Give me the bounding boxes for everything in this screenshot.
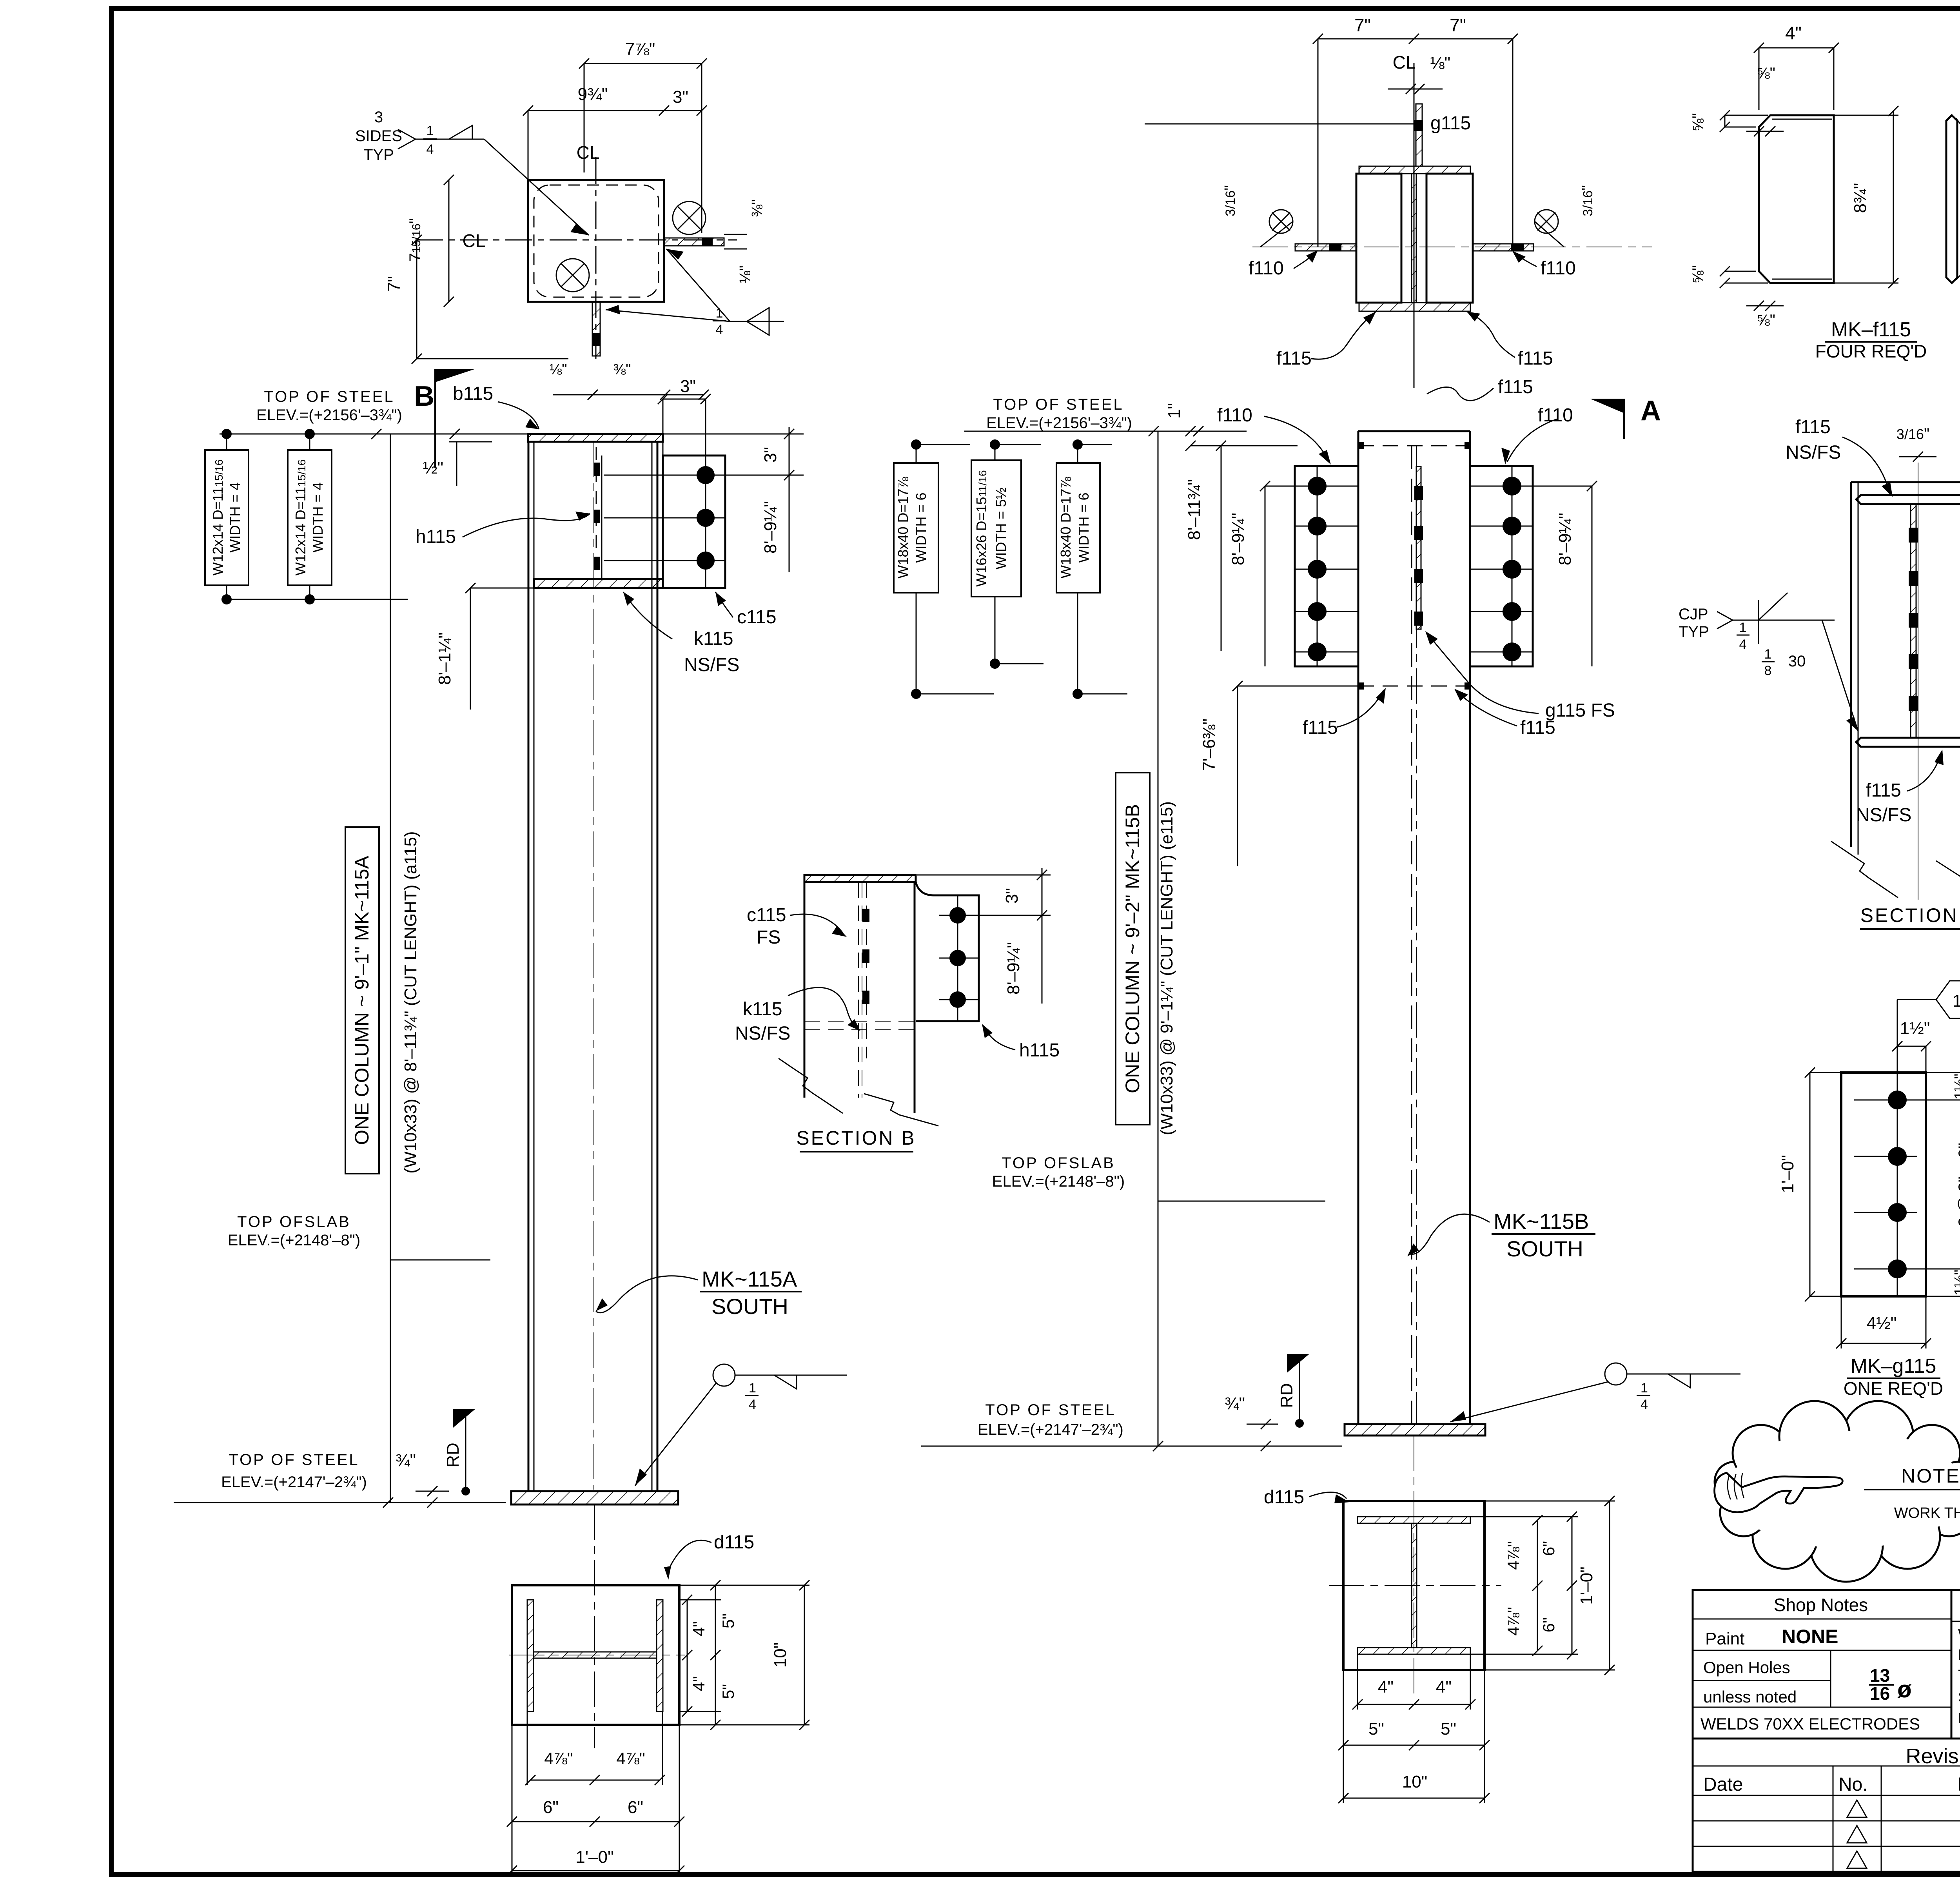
svg-text:FOUR REQ'D: FOUR REQ'D bbox=[1815, 341, 1927, 361]
svg-text:CL: CL bbox=[577, 142, 600, 163]
svg-text:SECTION B: SECTION B bbox=[796, 1127, 916, 1149]
svg-text:f110: f110 bbox=[1249, 258, 1284, 279]
svg-text:RD: RD bbox=[443, 1443, 463, 1468]
svg-text:TOP OFSLAB: TOP OFSLAB bbox=[237, 1213, 351, 1230]
svg-text:¾": ¾" bbox=[396, 1451, 416, 1470]
svg-text:f115: f115 bbox=[1795, 417, 1831, 437]
svg-text:ONE COLUMN ~ 9'–2" MK~115B: ONE COLUMN ~ 9'–2" MK~115B bbox=[1122, 804, 1143, 1093]
svg-text:8'–9¼": 8'–9¼" bbox=[1004, 942, 1023, 995]
weld symbol circles bbox=[556, 259, 589, 292]
svg-text:4": 4" bbox=[1378, 1677, 1394, 1697]
column flanges bbox=[528, 442, 530, 1491]
svg-text:4": 4" bbox=[1436, 1677, 1452, 1697]
svg-text:TOP OF STEEL: TOP OF STEEL bbox=[264, 388, 394, 405]
svg-text:ELEV.=(+2147'–2¾"): ELEV.=(+2147'–2¾") bbox=[221, 1474, 367, 1491]
svg-text:ø: ø bbox=[1897, 1676, 1912, 1702]
svg-text:8¾": 8¾" bbox=[1851, 183, 1870, 213]
svg-text:RD: RD bbox=[1277, 1383, 1296, 1408]
svg-text:unless noted: unless noted bbox=[1703, 1688, 1797, 1706]
svg-text:1": 1" bbox=[1165, 403, 1184, 419]
top of slab note (middle column) bbox=[992, 1154, 1325, 1201]
svg-text:7": 7" bbox=[1354, 15, 1371, 35]
svg-text:SIDES: SIDES bbox=[355, 127, 402, 145]
svg-text:h115: h115 bbox=[416, 526, 456, 547]
f110 side plates with bolts bbox=[1295, 466, 1358, 666]
svg-text:f115: f115 bbox=[1518, 348, 1553, 369]
svg-text:Paint: Paint bbox=[1705, 1629, 1744, 1648]
svg-text:WIDTH = 5½: WIDTH = 5½ bbox=[993, 487, 1009, 569]
svg-text:8'–9¼": 8'–9¼" bbox=[761, 501, 780, 554]
svg-text:⅝": ⅝" bbox=[1690, 265, 1707, 284]
dim 3/4 at base bbox=[396, 1451, 449, 1508]
svg-text:3/16": 3/16" bbox=[1579, 185, 1596, 216]
svg-text:3": 3" bbox=[680, 377, 696, 396]
svg-text:4⅞": 4⅞" bbox=[544, 1749, 573, 1768]
svg-text:1: 1 bbox=[716, 306, 723, 321]
svg-text:TOP OF STEEL: TOP OF STEEL bbox=[993, 396, 1123, 413]
svg-text:MK~115A: MK~115A bbox=[702, 1267, 797, 1291]
svg-text:Bars & Plts.: Bars & Plts. bbox=[1958, 1647, 1960, 1663]
svg-text:Open Holes: Open Holes bbox=[1703, 1658, 1790, 1677]
svg-text:c115: c115 bbox=[737, 607, 777, 628]
svg-text:ELEV.=(+2147'–2¾"): ELEV.=(+2147'–2¾") bbox=[978, 1421, 1123, 1438]
svg-text:B: B bbox=[414, 381, 434, 412]
svg-text:4: 4 bbox=[716, 322, 723, 337]
svg-text:6": 6" bbox=[543, 1798, 559, 1817]
svg-text:1: 1 bbox=[1739, 620, 1747, 635]
svg-text:FS: FS bbox=[757, 927, 780, 948]
centerline below middle base bbox=[1414, 1436, 1414, 1697]
svg-text:TCC Bolts: TCC Bolts bbox=[1958, 1667, 1960, 1684]
svg-text:5": 5" bbox=[719, 1684, 737, 1699]
svg-text:NS/FS: NS/FS bbox=[735, 1023, 790, 1044]
top of slab note (left column) bbox=[228, 1213, 490, 1260]
svg-text:4⅞": 4⅞" bbox=[616, 1749, 645, 1768]
svg-text:NONE: NONE bbox=[1782, 1626, 1838, 1648]
web plate hatched with bolts bbox=[1911, 504, 1916, 738]
svg-text:WIDTH = 4: WIDTH = 4 bbox=[310, 482, 326, 552]
web and c115 dashed bbox=[858, 882, 859, 1098]
base plate (middle column elevation) bbox=[1345, 1424, 1485, 1436]
svg-text:8'–9¼": 8'–9¼" bbox=[1229, 513, 1248, 565]
web dashed centerlines bbox=[1411, 446, 1412, 1424]
pointing hand bbox=[1715, 1473, 1843, 1512]
svg-text:SECTION A: SECTION A bbox=[1860, 904, 1960, 926]
svg-text:g115: g115 bbox=[1430, 113, 1471, 134]
svg-text:W18x40 D=17⅞: W18x40 D=17⅞ bbox=[895, 476, 911, 578]
svg-text:13: 13 bbox=[1870, 1665, 1890, 1686]
svg-text:Structure Tubes: Structure Tubes bbox=[1958, 1689, 1960, 1706]
shop notes / material table bbox=[1693, 1590, 1960, 1872]
svg-text:3": 3" bbox=[761, 447, 780, 463]
svg-text:8: 8 bbox=[1764, 663, 1772, 678]
svg-text:1½": 1½" bbox=[1900, 1019, 1930, 1038]
svg-text:7": 7" bbox=[385, 276, 404, 292]
web splice hatched strip with bolts bbox=[1416, 466, 1421, 629]
svg-text:⅛": ⅛" bbox=[737, 265, 753, 283]
svg-text:CL: CL bbox=[463, 230, 486, 251]
svg-text:9¾": 9¾" bbox=[578, 85, 608, 104]
column centerline bbox=[593, 442, 594, 1490]
middle column elevation MK~115B bbox=[964, 396, 1615, 1424]
svg-text:NS/FS: NS/FS bbox=[1856, 805, 1911, 826]
base plate plan with W10 section (left) bbox=[507, 1580, 809, 1876]
base plate (left column elevation) bbox=[511, 1491, 678, 1505]
svg-text:ELEV.=(+2148'–8"): ELEV.=(+2148'–8") bbox=[228, 1232, 360, 1249]
svg-text:CL: CL bbox=[1393, 52, 1416, 73]
svg-text:TYP: TYP bbox=[1679, 623, 1709, 641]
svg-text:Pipe: Pipe bbox=[1958, 1710, 1960, 1727]
splice dashed lines bbox=[1358, 445, 1470, 446]
svg-text:No.: No. bbox=[1838, 1774, 1868, 1795]
svg-text:⅛": ⅛" bbox=[1430, 53, 1450, 73]
svg-text:NOTE TO FABRICATOR:: NOTE TO FABRICATOR: bbox=[1901, 1465, 1960, 1487]
svg-text:Date: Date bbox=[1703, 1774, 1743, 1795]
MK~115A SOUTH label bbox=[596, 1267, 802, 1319]
svg-text:TOP OFSLAB: TOP OFSLAB bbox=[1002, 1154, 1115, 1172]
svg-text:⅜": ⅜" bbox=[613, 361, 631, 378]
svg-text:1½": 1½" bbox=[1952, 1074, 1960, 1100]
top of steel note at base (left column) bbox=[174, 1451, 506, 1508]
svg-text:SOUTH: SOUTH bbox=[1506, 1236, 1583, 1261]
svg-text:6": 6" bbox=[1539, 1617, 1558, 1632]
svg-text:Revision: Revision bbox=[1906, 1744, 1960, 1768]
svg-text:g115 FS: g115 FS bbox=[1545, 700, 1615, 721]
k115 plate bbox=[534, 579, 663, 588]
svg-text:¾": ¾" bbox=[1225, 1394, 1245, 1413]
top of steel note (left column) bbox=[256, 388, 402, 424]
svg-text:TYP: TYP bbox=[363, 146, 394, 163]
svg-text:10": 10" bbox=[1402, 1772, 1428, 1791]
svg-text:W18x40 D=17⅞: W18x40 D=17⅞ bbox=[1058, 476, 1074, 578]
svg-text:8'–1¼": 8'–1¼" bbox=[435, 632, 454, 685]
svg-text:5": 5" bbox=[1441, 1719, 1456, 1739]
top of steel line bbox=[220, 434, 804, 435]
svg-text:1: 1 bbox=[1764, 647, 1772, 662]
bottom flange plate f115 bbox=[1856, 738, 1960, 747]
svg-text:k115: k115 bbox=[743, 999, 782, 1020]
weld circles bbox=[1269, 210, 1293, 233]
weld note at middle base plate bbox=[1450, 1363, 1740, 1422]
svg-text:4": 4" bbox=[690, 1676, 708, 1691]
MK~115B SOUTH label bbox=[1407, 1209, 1595, 1261]
svg-text:3: 3 bbox=[374, 109, 383, 126]
svg-text:1 x: 1 x bbox=[1953, 991, 1960, 1011]
weld note at left base plate bbox=[635, 1364, 847, 1486]
svg-text:MK~115B: MK~115B bbox=[1494, 1209, 1589, 1234]
svg-text:NS/FS: NS/FS bbox=[684, 655, 739, 675]
svg-text:4: 4 bbox=[426, 142, 434, 157]
svg-text:⅝": ⅝" bbox=[1690, 113, 1707, 132]
svg-text:4": 4" bbox=[1785, 23, 1802, 43]
svg-text:MK–g115: MK–g115 bbox=[1851, 1355, 1936, 1377]
dim 3 top (flange to bolts) bbox=[663, 399, 706, 400]
svg-text:Wide Flgs.: Wide Flgs. bbox=[1958, 1626, 1960, 1643]
svg-text:WIDTH = 6: WIDTH = 6 bbox=[1076, 492, 1092, 563]
svg-text:f110: f110 bbox=[1217, 405, 1252, 426]
svg-text:f110: f110 bbox=[1538, 405, 1573, 426]
base plate plan with W10 section (middle, rotated) bbox=[1329, 1496, 1615, 1803]
svg-text:1'–0": 1'–0" bbox=[1778, 1155, 1797, 1193]
svg-text:⅝": ⅝" bbox=[1757, 65, 1775, 82]
svg-text:1½": 1½" bbox=[1952, 1270, 1960, 1296]
left cap plate plan detail bbox=[355, 40, 784, 400]
svg-text:f115: f115 bbox=[1866, 780, 1901, 801]
svg-text:6": 6" bbox=[628, 1798, 643, 1817]
break lines bottom bbox=[1831, 841, 1898, 898]
svg-text:4⅞": 4⅞" bbox=[1504, 1607, 1523, 1635]
svg-text:7'–6⅜": 7'–6⅜" bbox=[1200, 719, 1219, 771]
svg-text:1'–0": 1'–0" bbox=[1577, 1566, 1596, 1604]
g115 tab plan bbox=[1416, 104, 1422, 166]
svg-text:4: 4 bbox=[1739, 637, 1747, 652]
svg-text:A: A bbox=[1641, 395, 1661, 426]
svg-text:½": ½" bbox=[423, 458, 443, 477]
svg-text:⅛": ⅛" bbox=[549, 361, 567, 378]
svg-text:7": 7" bbox=[1450, 15, 1466, 35]
svg-text:h115: h115 bbox=[1019, 1040, 1060, 1061]
svg-text:d115: d115 bbox=[1264, 1487, 1304, 1508]
svg-text:Remarks: Remarks bbox=[1958, 1774, 1960, 1795]
dims right of left base plan bbox=[687, 1600, 688, 1711]
svg-text:ELEV.=(+2156'–3¾"): ELEV.=(+2156'–3¾") bbox=[986, 414, 1132, 432]
f110 plan tabs bbox=[1295, 244, 1356, 251]
svg-text:f115: f115 bbox=[1303, 717, 1338, 738]
svg-text:TOP OF STEEL: TOP OF STEEL bbox=[229, 1451, 359, 1468]
leader to weld 1/4 1/4 symbols right bbox=[666, 249, 730, 321]
top flange plate f115 bbox=[1856, 495, 1960, 504]
svg-text:3": 3" bbox=[1002, 888, 1022, 904]
svg-text:1'–0": 1'–0" bbox=[575, 1848, 613, 1867]
centerline through base bbox=[594, 1505, 595, 1748]
svg-text:CJP: CJP bbox=[1679, 606, 1708, 623]
W12x14 framing boxes bbox=[205, 429, 408, 604]
svg-text:SOUTH: SOUTH bbox=[711, 1294, 788, 1319]
h115 plate with fillet bbox=[916, 882, 979, 1021]
MK-f115 plate detail bbox=[1690, 23, 1960, 361]
svg-text:ELEV.=(+2156'–3¾"): ELEV.=(+2156'–3¾") bbox=[256, 407, 402, 424]
svg-text:3/16": 3/16" bbox=[1222, 185, 1238, 216]
svg-text:6": 6" bbox=[1539, 1541, 1558, 1556]
svg-text:k115: k115 bbox=[694, 628, 733, 649]
svg-text:ONE REQ'D: ONE REQ'D bbox=[1844, 1378, 1943, 1399]
svg-text:4: 4 bbox=[749, 1397, 756, 1412]
svg-text:ONE COLUMN ~ 9'–1" MK~115A: ONE COLUMN ~ 9'–1" MK~115A bbox=[351, 855, 373, 1145]
svg-text:WELDS 70XX ELECTRODES: WELDS 70XX ELECTRODES bbox=[1700, 1715, 1920, 1733]
dim 3/4 at base (middle) bbox=[1225, 1394, 1278, 1451]
SECTION B detail bbox=[735, 868, 1060, 1152]
k115 dashed bbox=[804, 1021, 915, 1022]
revision table bbox=[1693, 1744, 1960, 1872]
right dim line 3 and 8-9 1/4 bbox=[789, 427, 790, 572]
svg-text:10": 10" bbox=[771, 1642, 790, 1668]
svg-text:f115: f115 bbox=[1498, 377, 1533, 397]
svg-text:5": 5" bbox=[1368, 1719, 1384, 1739]
svg-text:NS/FS: NS/FS bbox=[1786, 442, 1841, 463]
svg-text:4⅞": 4⅞" bbox=[1504, 1541, 1523, 1570]
svg-text:⅜": ⅜" bbox=[749, 199, 766, 217]
svg-text:3/16": 3/16" bbox=[1896, 425, 1929, 443]
MK-g115 plate detail bbox=[1778, 981, 1960, 1399]
svg-text:ELEV.=(+2148'–8"): ELEV.=(+2148'–8") bbox=[992, 1173, 1125, 1190]
d115 label (left) bbox=[664, 1532, 754, 1580]
svg-text:8'–11¾": 8'–11¾" bbox=[1185, 479, 1204, 540]
svg-text:1: 1 bbox=[1641, 1381, 1648, 1396]
svg-text:1: 1 bbox=[426, 123, 434, 138]
middle cap/splice plan detail bbox=[1145, 15, 1652, 465]
svg-text:7⅞": 7⅞" bbox=[625, 40, 655, 59]
svg-text:TOP OF STEEL: TOP OF STEEL bbox=[985, 1401, 1116, 1419]
break lines bbox=[779, 1058, 843, 1113]
note to fabricator cloud bbox=[1715, 1401, 1960, 1582]
svg-text:30: 30 bbox=[1788, 653, 1806, 670]
svg-text:WORK THIS SHEET WITH SHEET 110: WORK THIS SHEET WITH SHEET 110 bbox=[1894, 1505, 1960, 1521]
svg-text:c115: c115 bbox=[747, 905, 786, 926]
W18x40 / W16x26 framing boxes (middle column) bbox=[894, 439, 1127, 699]
SECTION A detail bbox=[1679, 417, 1960, 929]
svg-text:WIDTH = 4: WIDTH = 4 bbox=[227, 482, 243, 552]
dims right of middle base plan bbox=[1537, 1520, 1538, 1651]
svg-text:3": 3" bbox=[673, 87, 688, 107]
svg-text:(W10x33) @ 9'–1¼" (CUT LENGHT): (W10x33) @ 9'–1¼" (CUT LENGHT) (e115) bbox=[1157, 801, 1176, 1135]
side view thin plate bbox=[1946, 115, 1957, 283]
svg-text:16: 16 bbox=[1870, 1683, 1890, 1704]
svg-text:MK–f115: MK–f115 bbox=[1831, 318, 1911, 341]
svg-text:3 @ 3" = 9": 3 @ 3" = 9" bbox=[1955, 1143, 1960, 1227]
svg-text:8'–9¼": 8'–9¼" bbox=[1555, 513, 1575, 565]
middle column mark box (rotated) bbox=[1116, 431, 1176, 1446]
svg-text:Shop Notes: Shop Notes bbox=[1774, 1595, 1868, 1615]
svg-text:4": 4" bbox=[690, 1621, 708, 1636]
section flag A bbox=[1590, 395, 1661, 439]
centerlines bbox=[1252, 247, 1652, 247]
section flag B bbox=[414, 369, 475, 468]
svg-text:(W10x33) @ 8'–11¾" (CUT LENGHT: (W10x33) @ 8'–11¾" (CUT LENGHT) (a115) bbox=[401, 831, 420, 1173]
svg-text:5": 5" bbox=[719, 1613, 737, 1628]
svg-text:b115: b115 bbox=[453, 383, 493, 404]
svg-text:WIDTH = 6: WIDTH = 6 bbox=[913, 492, 929, 563]
one column mark box (rotated) bbox=[345, 434, 420, 1503]
svg-text:d115: d115 bbox=[714, 1532, 754, 1553]
hexagon bbox=[1897, 999, 1936, 1000]
clip g115 plan tab bbox=[592, 302, 600, 356]
svg-text:f115: f115 bbox=[1276, 348, 1312, 369]
top of steel note at base (middle column) bbox=[921, 1401, 1342, 1451]
RD flag at base (middle) bbox=[1277, 1354, 1309, 1428]
svg-text:f110: f110 bbox=[1541, 258, 1576, 279]
column outline bbox=[1357, 431, 1359, 1424]
h115 web plate dashed bbox=[601, 456, 603, 579]
svg-text:1: 1 bbox=[749, 1381, 756, 1396]
left column elevation MK~115A bbox=[220, 383, 804, 1491]
clip c115 plan tab bbox=[664, 238, 724, 246]
svg-text:4½": 4½" bbox=[1867, 1314, 1897, 1333]
c115 clip with bolts bbox=[663, 456, 725, 588]
cap plate b115 bbox=[528, 434, 663, 442]
d115 label (middle) bbox=[1264, 1487, 1350, 1508]
RD flag at base (left) bbox=[443, 1409, 475, 1495]
svg-text:⅝": ⅝" bbox=[1757, 312, 1775, 329]
svg-text:4: 4 bbox=[1641, 1397, 1648, 1412]
